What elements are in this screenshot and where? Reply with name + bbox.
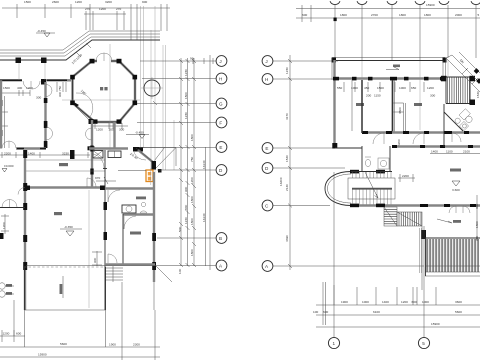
svg-text:3500: 3500 [398,107,402,114]
svg-text:-0.450: -0.450 [135,131,144,135]
svg-text:H: H [265,77,268,82]
stove crossed box [93,151,103,159]
right wing wall vertical black [152,161,157,170]
grid bubble 5 [418,337,429,348]
grid extension lines into plan [362,60,448,130]
right wall black segments [44,98,48,103]
right outer wall columns [152,233,156,241]
sub dimension 270 1200 270 [84,13,126,15]
room right wall [44,82,46,148]
octagon double entry door [96,53,112,61]
svg-text:1200: 1200 [401,300,408,304]
left wing top wall [0,79,71,81]
hall east wall [91,120,93,188]
svg-text:100: 100 [109,128,114,132]
extension ticks up [334,285,436,305]
svg-text:1540: 1540 [285,155,289,162]
south wall black segments [362,131,469,134]
bay top bottom walls [351,172,392,206]
servant vertical wall [122,214,124,265]
svg-text:90: 90 [190,57,194,61]
right outer wall [153,172,155,282]
svg-text:970: 970 [95,176,100,180]
grid bubble H right [262,74,273,85]
svg-text:1000: 1000 [422,300,429,304]
column at hall diag [89,119,94,124]
round column [144,80,160,96]
left grid bubble lines [273,61,424,266]
porch dashed line [24,266,106,268]
wc figure [141,202,145,206]
grid bubble A [216,260,227,271]
diagonal wall to right wing [138,150,154,163]
stair left dims [92,251,102,266]
door arcs to hall upper [46,85,52,97]
svg-text:1900: 1900 [109,343,116,347]
west wall columns [23,150,27,158]
svg-text:4170: 4170 [285,113,289,120]
svg-text:270: 270 [85,7,90,11]
svg-text:1800: 1800 [424,13,431,17]
bedroom divider walls [392,80,394,133]
left edge dim chain [1,214,9,234]
grid bubble J right [262,56,273,67]
svg-text:300: 300 [36,96,41,100]
svg-text:1230: 1230 [285,67,289,74]
east wall columns [104,202,108,210]
canopy triangles right of kitchen [139,148,176,169]
grid bubble J [216,56,227,67]
grid connector vertical [209,55,211,270]
svg-text:1800: 1800 [190,196,194,203]
svg-text:1800: 1800 [190,134,194,141]
bathroom2 north wall [105,187,155,189]
svg-text:750: 750 [190,157,194,162]
grid bubble E [216,142,227,153]
grid lines through octagon [62,44,140,150]
svg-text:E: E [219,145,222,150]
left exterior double door [2,200,17,208]
svg-text:H: H [219,76,222,81]
svg-text:15900: 15900 [426,3,435,7]
servant south wall [105,263,155,265]
porch walls [25,267,106,310]
dim row 2 [316,314,480,316]
dim row 3 [316,326,480,328]
vertical dim chain right plan [289,55,291,270]
grid bubble E right [262,143,273,154]
svg-text:1000: 1000 [399,86,406,90]
svg-text:1400: 1400 [382,300,389,304]
svg-text:5: 5 [478,13,480,17]
svg-text:1400: 1400 [28,152,35,156]
annotation arrow mid right [437,219,452,223]
bedroom 1 label [356,103,364,106]
left double tick [323,282,326,325]
bottom left small dims [0,330,25,342]
servant room door arc [124,216,136,229]
svg-text:1540: 1540 [476,91,480,98]
terrace column lines 2 [19,63,45,80]
svg-text:5: 5 [422,341,425,346]
svg-text:900: 900 [93,258,97,263]
grid bubble D right [262,163,273,174]
octagon dining room walls [73,61,136,122]
top dimension ticks [17,4,167,40]
hall east wall arcs [86,128,92,140]
sink unit [122,205,136,213]
svg-text:1230: 1230 [184,112,188,119]
door arc at living north [87,178,96,187]
building top eave wall [332,57,445,59]
top grid bubbles (cut) [330,1,480,4]
top dim line 2 [296,17,480,19]
svg-text:16200: 16200 [279,177,283,186]
svg-text:5600: 5600 [60,342,67,346]
living north wall columns [25,186,30,191]
svg-text:400: 400 [17,86,22,90]
svg-text:840: 840 [184,205,188,210]
svg-text:2140: 2140 [285,184,289,191]
hall dimension line [0,154,90,156]
kitchen corner column [133,147,143,152]
svg-text:±0.000: ±0.000 [4,164,14,168]
small black fitting [158,169,162,173]
svg-text:100: 100 [313,310,318,314]
wc near stairs [365,159,370,166]
svg-text:300: 300 [475,236,479,241]
left room west wall [0,80,2,148]
top dimension line [2,7,170,9]
living room east wall [104,150,106,310]
left outer wall [333,60,335,148]
stair treads in bay [353,172,392,205]
grid bubble C right [262,200,273,211]
deck with pergola hatch [420,228,480,276]
curved stair bay inner wall [328,174,352,203]
living room label [54,212,62,215]
entry double door bottom left room [2,141,16,148]
svg-text:1800: 1800 [399,13,406,17]
grid lines to bubbles [26,58,216,266]
grid bubble F [216,117,227,128]
canopy band top-left [0,31,160,50]
svg-text:1500: 1500 [377,86,384,90]
curved stair bay outer wall [325,172,351,206]
svg-text:200: 200 [366,94,371,98]
svg-text:16140: 16140 [202,160,206,169]
svg-text:2200: 2200 [402,174,409,178]
grid bubble G [216,98,227,109]
svg-text:3.600: 3.600 [452,188,460,192]
stair diagonal [365,172,378,198]
svg-text:1500: 1500 [184,92,188,99]
left room south wall [16,147,46,149]
octagon door gap [97,59,111,62]
svg-text:2700: 2700 [371,13,378,17]
svg-text:2000: 2000 [455,13,462,17]
octagon corner columns [70,59,137,124]
corner column [41,79,46,85]
dim row 1 [316,304,480,306]
svg-text:1240: 1240 [184,217,188,224]
left wing top dim line [0,92,30,94]
eave left edge [332,58,335,81]
bathroom2 label [136,197,146,200]
svg-text:3200: 3200 [105,0,112,4]
big arc door 135 at octagon west [76,93,93,118]
grid bubble D [216,165,227,176]
living room west wall [24,150,26,310]
living NW door arc [18,188,25,195]
chain texts rotated [178,69,206,274]
svg-text:1200: 1200 [2,222,6,229]
upper-right bathroom diagonal fixtures [454,109,476,131]
svg-text:B: B [219,236,222,241]
closet wall left [351,80,353,131]
svg-text:F: F [219,120,222,125]
living room north wall [25,186,105,188]
family room label [450,169,461,172]
svg-text:1800: 1800 [190,218,194,225]
svg-text:550: 550 [337,86,342,90]
canopy column 2 [41,58,47,64]
canopy column 1 [16,58,22,64]
svg-text:1400: 1400 [431,150,438,154]
svg-text:1800: 1800 [475,221,479,228]
bottom dim line 1 [0,346,160,348]
svg-text:900: 900 [142,0,147,4]
svg-text:1200: 1200 [96,128,103,132]
bath walls near stairs [362,146,390,171]
svg-text:1200: 1200 [75,0,82,4]
grid line 1 vertical [333,172,335,337]
window wall black columns [333,77,446,81]
chain tick marks [179,59,196,267]
svg-text:-0.450: -0.450 [37,29,46,33]
south wall black segments [350,204,476,207]
landscaping symbols [0,283,5,289]
bathroom2 south wall [123,213,155,215]
svg-text:1230: 1230 [184,69,188,76]
svg-text:1200: 1200 [427,86,434,90]
door arcs south wall [449,206,470,213]
dining room label [100,87,103,90]
grid bubble H [216,73,227,84]
svg-text:E: E [265,146,268,151]
corridor wall [392,145,480,147]
bedroom inner west wall [361,80,363,133]
ramp label vertical [62,276,64,298]
sink double [108,151,121,158]
grid bubble 1 [328,337,339,348]
stair landing [348,178,395,189]
svg-text:1100: 1100 [446,150,453,154]
svg-text:300: 300 [475,204,479,209]
entry double door arcs opening down [23,81,40,89]
long grid verticals upper mid [141,6,175,172]
kitchen interior wall [113,122,115,148]
eave right edge [443,58,446,78]
vertical line below steps [421,226,423,290]
level 3.600 [452,181,460,186]
svg-text:1150: 1150 [374,94,381,98]
svg-text:-0.350: -0.350 [64,225,73,229]
svg-text:16140: 16140 [202,213,206,222]
svg-text:2600: 2600 [52,0,59,4]
small stair bottom [105,266,123,282]
svg-text:3230: 3230 [62,152,69,156]
svg-text:900 750: 900 750 [58,86,62,97]
svg-text:2300: 2300 [133,343,140,347]
svg-text:1500: 1500 [24,0,31,4]
svg-text:450: 450 [364,86,369,90]
svg-text:15900: 15900 [38,353,47,357]
black column at deck [421,230,426,239]
svg-text:1200: 1200 [190,177,194,184]
svg-text:5200: 5200 [397,139,401,146]
bottom dim line 2 [0,356,160,358]
svg-text:900: 900 [184,187,188,192]
svg-text:600: 600 [302,13,307,17]
foyer label [59,163,68,166]
right edge rotated dims [476,195,478,240]
svg-text:1900: 1900 [341,300,348,304]
door arcs on south wall [373,133,384,144]
top dim ticks [302,5,476,60]
stair block columns [441,76,447,82]
svg-text:500: 500 [178,227,182,232]
door arcs to hall lower [46,127,53,140]
top right stair block [446,77,470,104]
diagonal bay top right [446,52,480,92]
svg-text:600: 600 [412,300,417,304]
svg-text:G: G [219,101,223,106]
bedroom 2 label [414,103,422,106]
svg-text:2100: 2100 [463,150,470,154]
column at hall [70,150,75,159]
svg-text:1200: 1200 [3,332,10,336]
svg-text:1500: 1500 [3,86,10,90]
top dim line 1 [296,8,480,10]
exterior steps upper hatched [384,207,422,226]
svg-text:5600: 5600 [455,310,462,314]
svg-text:100: 100 [178,269,182,274]
svg-text:2200: 2200 [4,152,11,156]
left edge window marks [0,100,3,106]
svg-text:1800: 1800 [340,13,347,17]
corner diagonal bottom right [155,265,172,282]
svg-text:3600: 3600 [455,300,462,304]
grid vertical through living [88,190,90,308]
svg-text:270: 270 [116,7,121,11]
bedroom south wall [362,131,480,133]
kitchen south wall [89,147,128,149]
svg-text:600: 600 [323,310,328,314]
window wall [334,77,444,79]
grid bubble A right [262,261,273,272]
svg-text:1800: 1800 [190,249,194,256]
svg-text:J: J [265,59,267,64]
svg-text:1000: 1000 [362,300,369,304]
svg-text:4390: 4390 [285,235,289,242]
svg-text:1: 1 [333,341,336,346]
bath door arc [108,190,120,202]
kitchen dims below octagon [92,123,128,129]
grid line 5 vertical [423,226,425,337]
svg-text:300: 300 [430,94,435,98]
window dim ticks [344,82,424,92]
svg-text:6100: 6100 [373,310,380,314]
svg-text:600: 600 [16,332,21,336]
grid bubble B [216,233,227,244]
foyer floor lines [24,160,105,171]
porch door arc [108,254,117,263]
servant room label [130,232,141,235]
south wall of main block [350,204,480,206]
canopy arrow symbol [386,67,399,70]
right side vertical dim chains [181,58,206,266]
stair bay columns [350,170,359,174]
svg-text:650: 650 [411,86,416,90]
svg-text:15900: 15900 [431,322,440,326]
svg-text:1200: 1200 [99,7,106,11]
dim 2200 [398,174,415,182]
svg-text:J: J [219,59,221,64]
orange window element [146,170,153,182]
svg-text:300: 300 [119,128,124,132]
